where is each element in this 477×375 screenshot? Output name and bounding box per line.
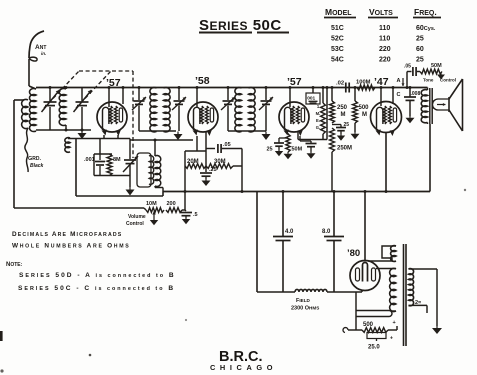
svg-text:DECIMALS ARE MICROFARADS: DECIMALS ARE MICROFARADS <box>12 231 122 238</box>
wire RF bottom rail <box>36 129 91 131</box>
resistor 500M grid leak '47 <box>354 88 356 102</box>
variable capacitor padder <box>129 139 131 160</box>
resistor 10M volume control <box>146 208 164 213</box>
variable capacitor C1 tuning <box>49 88 51 102</box>
coil field 2300 ohms <box>257 291 295 293</box>
capacitor 4.0 filter <box>282 192 284 237</box>
wire grid return bus <box>130 139 193 141</box>
capacitor .008 <box>409 88 411 97</box>
transformer T4 primary winding <box>409 269 414 306</box>
svg-text:220: 220 <box>379 57 391 64</box>
coil L2 oscillator <box>59 89 66 126</box>
variable capacitor C2 tuning <box>81 88 83 102</box>
ground IF1 <box>177 132 179 135</box>
volume control wiper <box>153 212 155 221</box>
svg-text:250: 250 <box>337 105 348 111</box>
svg-text:.02: .02 <box>336 81 344 87</box>
wire top rail <box>36 87 428 89</box>
ground IF2 <box>265 132 267 135</box>
speaker cone <box>449 79 463 99</box>
svg-text:E.: E. <box>316 118 320 123</box>
svg-text:25: 25 <box>416 57 424 64</box>
resistor 8M <box>107 154 112 176</box>
resistor 200 <box>166 208 182 213</box>
resistor 50M cathode <box>287 133 289 134</box>
svg-text:CHICAGO: CHICAGO <box>210 363 277 372</box>
svg-text:500: 500 <box>359 105 370 111</box>
wire rectifier plate to HV winding <box>376 268 396 270</box>
tube V3 '57 second detector <box>279 102 309 132</box>
capacitor .5 <box>185 210 186 211</box>
capacitor .05 coupling <box>206 148 215 150</box>
wire volume bus <box>14 207 144 209</box>
resistor 250M detector plate <box>331 88 333 102</box>
svg-text:Control: Control <box>440 78 456 83</box>
svg-text:FIELD: FIELD <box>296 298 311 304</box>
svg-text:100M: 100M <box>356 80 371 86</box>
resistor 500 bleeder <box>348 329 362 331</box>
wire V3 plate riser <box>297 133 299 140</box>
transformer T4 core <box>403 244 405 346</box>
svg-text:54C: 54C <box>331 57 344 64</box>
svg-text:’80: ’80 <box>347 248 360 259</box>
ground padder <box>129 187 131 190</box>
svg-text:Control: Control <box>126 221 144 227</box>
svg-text:110: 110 <box>379 25 390 32</box>
trimmer capacitor IF1 right <box>178 88 180 101</box>
svg-text:.5: .5 <box>193 212 198 218</box>
wire T3 to bus <box>429 124 431 192</box>
coil L1 antenna primary <box>29 89 36 132</box>
wire GRD lead <box>25 128 28 172</box>
resistor 30M <box>206 164 233 169</box>
tube V1 '57 first detector <box>97 102 127 132</box>
trimmer capacitor IF1 left <box>138 88 140 101</box>
wire rectifier bottom <box>361 290 363 292</box>
svg-text:25.0: 25.0 <box>368 345 380 351</box>
svg-text:250M: 250M <box>337 146 352 152</box>
tube V5 '80 rectifier <box>350 261 380 291</box>
svg-text:8.0: 8.0 <box>322 229 331 235</box>
capacitor .05 tone <box>406 72 408 88</box>
svg-text:30M: 30M <box>214 159 226 165</box>
tube V4 '47 output <box>371 102 402 133</box>
svg-text:SERIES 50C: SERIES 50C <box>199 17 282 34</box>
capacitor .001 oscillator grid <box>99 139 101 155</box>
svg-text:1: 1 <box>317 104 320 109</box>
svg-text:60: 60 <box>416 46 424 53</box>
wire T2 to bus <box>155 187 163 189</box>
svg-text:.001: .001 <box>84 157 95 163</box>
svg-text:Black: Black <box>30 163 44 169</box>
svg-text:2300 OHMS: 2300 OHMS <box>291 306 319 312</box>
svg-text:50M: 50M <box>292 147 303 153</box>
capacitor 8.0 filter <box>333 192 335 237</box>
capacitor screen bypass <box>299 136 301 141</box>
svg-text:M.: M. <box>316 111 321 116</box>
svg-text:FREQ.: FREQ. <box>414 7 437 17</box>
svg-text:SERIES 50C - C is connected to: SERIES 50C - C is connected to B <box>18 285 175 292</box>
trimmer capacitor IF2 left <box>227 88 229 101</box>
svg-text:WHOLE NUMBERS ARE OHMS: WHOLE NUMBERS ARE OHMS <box>12 243 130 250</box>
svg-text:VOLTS: VOLTS <box>369 7 393 17</box>
wire grid-return left bus <box>13 100 15 208</box>
coil IF1 primary <box>150 88 157 132</box>
svg-text:+: + <box>390 336 393 342</box>
capacitor 25 cathode <box>279 137 288 139</box>
svg-text:C: C <box>397 92 401 98</box>
transformer T4 HV winding <box>390 268 396 311</box>
svg-text:’57: ’57 <box>287 76 302 88</box>
ground under RF rail <box>81 131 83 134</box>
wire oscillator return <box>75 139 77 197</box>
svg-text:SERIES 50D - A is connected to: SERIES 50D - A is connected to B <box>19 272 176 279</box>
wire antenna down-lead <box>28 59 30 86</box>
scan artifact edge bar <box>0 331 3 341</box>
wire screen dropping <box>233 165 242 167</box>
coil L1 secondary <box>22 99 28 128</box>
antenna ANT <box>29 31 44 58</box>
transformer T4 power filament winding <box>391 246 396 262</box>
capacitor 25.0 electrolytic <box>367 333 386 339</box>
transformer T3 core <box>429 88 431 124</box>
coil T2 secondary <box>155 156 161 187</box>
coil IF1 secondary <box>164 88 171 132</box>
coil L3 oscillator feedback <box>65 138 70 153</box>
svg-text:G.: G. <box>316 125 320 130</box>
svg-text:200: 200 <box>167 201 176 207</box>
speaker voice coil <box>433 99 449 110</box>
capacitor .25 cathode bypass <box>200 172 212 174</box>
wire V2 cathode network <box>196 136 198 151</box>
svg-text:.05: .05 <box>223 142 231 148</box>
svg-text:110: 110 <box>379 36 390 43</box>
svg-text:A: A <box>397 78 401 84</box>
capacitor .25 plate bypass <box>332 124 341 126</box>
wire field return <box>256 192 258 293</box>
svg-text:52C: 52C <box>331 36 344 43</box>
wire lower bus left <box>76 195 163 197</box>
wire B+ to rectifier <box>364 192 366 261</box>
wire IF2 bottom <box>228 130 266 132</box>
resistor 50M tone control <box>420 69 442 74</box>
svg-text:10M: 10M <box>146 201 157 207</box>
wire main B bus <box>163 191 430 193</box>
svg-text:M: M <box>362 112 367 118</box>
wire IF1 bottom <box>139 130 176 132</box>
svg-text:220: 220 <box>379 46 391 53</box>
dashed gang line <box>79 70 133 72</box>
svg-text:M: M <box>341 112 346 118</box>
coil IF2 secondary <box>249 88 256 132</box>
coil IF2 primary <box>235 88 242 132</box>
svg-text:+: + <box>393 320 396 326</box>
resistor 250M lower <box>330 128 335 152</box>
svg-text:GRD.: GRD. <box>28 156 42 162</box>
tube V2 '58 IF amplifier <box>188 102 218 132</box>
svg-text:’58: ’58 <box>195 75 210 87</box>
svg-text:.008: .008 <box>411 91 421 97</box>
svg-text:4.0: 4.0 <box>285 229 294 235</box>
svg-text:ANT: ANT <box>35 44 46 51</box>
svg-text:.05: .05 <box>404 64 411 70</box>
svg-text:001: 001 <box>307 96 315 102</box>
wire V1 cathode to oscillator coil <box>68 138 130 140</box>
svg-text:NOTE:: NOTE: <box>6 262 23 268</box>
svg-text:500: 500 <box>363 322 374 328</box>
resistor 1 MEG grid leak <box>322 88 324 104</box>
trimmer capacitor IF2 right <box>265 88 267 101</box>
svg-text:20M: 20M <box>187 159 199 165</box>
svg-text:Tone: Tone <box>423 78 434 83</box>
wire V4 cathode to bus <box>385 133 387 192</box>
wire rectifier filament to winding <box>368 246 396 261</box>
svg-text:51C: 51C <box>331 25 344 32</box>
svg-text:in.: in. <box>41 51 46 56</box>
wire rectifier cathode loop <box>356 311 392 317</box>
svg-text:25: 25 <box>416 36 424 43</box>
svg-text:2=: 2= <box>415 300 421 306</box>
svg-text:MODEL: MODEL <box>325 7 352 17</box>
resistor 100M <box>357 85 375 90</box>
capacitor .001 grid in box <box>312 88 314 94</box>
svg-text:.25: .25 <box>209 167 217 173</box>
transformer T2 volume coupling <box>137 153 151 187</box>
svg-text:8M: 8M <box>113 157 121 163</box>
ground power primary <box>436 269 438 326</box>
svg-text:60Cys.: 60Cys. <box>416 25 436 32</box>
svg-text:53C: 53C <box>331 46 344 53</box>
transformer T3 output primary <box>421 90 427 123</box>
svg-text:50M: 50M <box>431 63 442 69</box>
svg-text:25: 25 <box>344 122 350 128</box>
svg-text:Volume: Volume <box>128 214 146 220</box>
resistor 20M <box>185 164 206 169</box>
capacitor .02 coupling <box>345 83 347 93</box>
svg-text:25: 25 <box>267 147 273 153</box>
